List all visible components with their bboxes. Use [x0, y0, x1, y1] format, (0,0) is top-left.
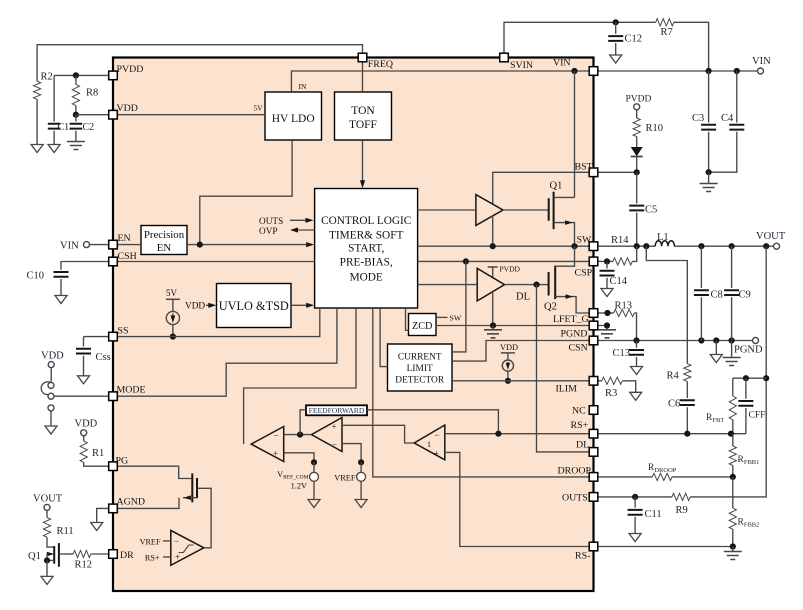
- wire amp B - input to VREF: [342, 444, 361, 463]
- svg-text:CONTROL LOGIC: CONTROL LOGIC: [321, 215, 411, 227]
- wire amp B output to amp A - input: [284, 434, 312, 436]
- svg-text:R4: R4: [667, 371, 680, 382]
- svg-text:RDROOP: RDROOP: [648, 463, 677, 474]
- node VIN/C4: [734, 68, 740, 74]
- capacitor C8: [700, 246, 702, 288]
- node VOUT/C9: [729, 243, 735, 249]
- capacitor C12: [615, 22, 617, 34]
- node CSN/R13/C13: [633, 337, 639, 343]
- pin RS-: [589, 542, 598, 551]
- node ILIM/source: [505, 378, 511, 384]
- pin RS+: [589, 429, 598, 438]
- pin PGND: [589, 321, 598, 330]
- wire PG internal to FET gate: [117, 466, 192, 478]
- resistor R_FBB2: [732, 477, 734, 508]
- wire SS pin to Css: [84, 336, 109, 338]
- op-amp upper gate driver: [476, 195, 503, 226]
- svg-text:VDD: VDD: [185, 302, 205, 312]
- node PGND stub: [604, 322, 610, 328]
- ground (arrow) VREF: [355, 500, 367, 508]
- svg-text:C5: C5: [645, 205, 657, 216]
- svg-text:C9: C9: [739, 290, 751, 301]
- wire switch to MODE pin: [54, 395, 108, 397]
- resistor R10: [636, 110, 638, 118]
- wire CSP external / resistor R14: [598, 260, 613, 262]
- node VIN/Q1 drain branch: [571, 68, 577, 74]
- wire DROOP external / resistor R_DROOP: [598, 476, 652, 478]
- pin ILIM: [589, 377, 598, 386]
- node EN/5V junction: [197, 242, 203, 248]
- svg-text:DL: DL: [516, 292, 530, 303]
- svg-text:C14: C14: [610, 276, 628, 287]
- svg-text:RFBB2: RFBB2: [738, 518, 760, 529]
- capacitor CFF: [745, 378, 747, 399]
- wire CSN internal: [452, 341, 589, 362]
- wire driver output to Q2 gate: [505, 284, 549, 286]
- node R8/VDD junction: [73, 112, 79, 118]
- svg-text:R14: R14: [611, 235, 629, 246]
- svg-text:RFBT: RFBT: [706, 413, 724, 424]
- svg-text:VDD: VDD: [41, 351, 64, 362]
- svg-text:DETECTOR: DETECTOR: [395, 376, 445, 386]
- resistor R11: [46, 510, 48, 517]
- svg-text:PVDD: PVDD: [626, 95, 652, 105]
- wire VIN internal (to HV LDO IN and Q1 drain): [291, 71, 588, 92]
- ground (earth) on PGND line: [723, 358, 741, 366]
- svg-text:OUTS: OUTS: [259, 217, 283, 227]
- diode D1: [631, 147, 643, 156]
- svg-text:IN: IN: [299, 82, 307, 91]
- svg-text:5V: 5V: [166, 288, 178, 298]
- pin VIN: [589, 67, 598, 76]
- wire VIN to EN pin: [90, 244, 109, 246]
- op-amp DR comparator (schmitt): [171, 530, 204, 565]
- wire unity amp - input / RS+ internal: [445, 433, 589, 435]
- capacitor Css: [83, 337, 85, 347]
- svg-text:DROOP: DROOP: [558, 465, 592, 476]
- svg-text:R11: R11: [57, 526, 74, 537]
- wire SW external: [598, 245, 655, 247]
- transistor PG FET (internal): [192, 473, 197, 502]
- wire Q2 source to LFET_G: [555, 297, 589, 313]
- svg-text:PVDD: PVDD: [117, 64, 144, 75]
- svg-text:1: 1: [427, 440, 431, 449]
- svg-text:C2: C2: [83, 122, 95, 133]
- wire VOUT feedback vertical: [690, 246, 766, 497]
- node VOUT/RFBT bar: [763, 375, 769, 381]
- wire DCR sense branch: [646, 246, 687, 364]
- svg-text:5V: 5V: [253, 104, 263, 113]
- svg-text:VREF: VREF: [334, 473, 356, 482]
- label SW at ZCD: [436, 316, 448, 318]
- pin CSP: [589, 257, 598, 266]
- ground (earth) driver: [484, 330, 502, 338]
- wire C6 to RS+ line: [686, 407, 688, 434]
- svg-text:BST: BST: [575, 162, 593, 173]
- node VOUT/feedback: [763, 243, 769, 249]
- node SS/source: [170, 334, 176, 340]
- node comp/feedforward: [297, 432, 303, 438]
- pin DR: [109, 550, 118, 559]
- wire PGND pin stub: [598, 326, 607, 330]
- svg-text:PGND: PGND: [734, 345, 763, 356]
- wire RFBT top bar: [733, 377, 766, 379]
- block FEEDFORWARD: [306, 405, 367, 415]
- wire UVLO to CONTROL LOGIC: [291, 304, 312, 306]
- wire Precision EN to CONTROL LOGIC: [187, 244, 312, 246]
- wire BST external: [598, 171, 637, 173]
- ground (earth) C2: [67, 142, 85, 150]
- svg-text:OUTS: OUTS: [562, 493, 588, 504]
- node DL/Q2 gate: [533, 282, 539, 288]
- svg-text:Css: Css: [96, 352, 111, 363]
- pin FREQ: [358, 53, 367, 62]
- op-amp lower gate driver: [477, 268, 504, 301]
- wire driver input from CONTROL LOGIC: [418, 209, 476, 211]
- pin SVIN: [500, 53, 509, 62]
- pin CSH: [109, 257, 118, 266]
- svg-text:ILIM: ILIM: [556, 384, 578, 395]
- capacitor C4: [736, 71, 738, 123]
- wire driver ground stub: [492, 293, 494, 326]
- wire C2 to ground: [75, 131, 77, 142]
- svg-text:−: −: [274, 430, 279, 440]
- wire AGND to ground: [97, 508, 109, 522]
- wire R2 to ground: [36, 99, 38, 144]
- svg-text:C10: C10: [27, 271, 45, 282]
- svg-text:R9: R9: [676, 505, 688, 516]
- node DROOP/divider: [730, 474, 736, 480]
- source VREF: [360, 462, 362, 472]
- svg-text:CSN: CSN: [569, 343, 588, 354]
- wire to earth ground: [708, 172, 710, 183]
- resistor R1: [83, 436, 85, 441]
- node RS+/feedforward: [495, 431, 501, 437]
- ground (earth) at PGND pin: [598, 330, 616, 338]
- resistor R9: [672, 493, 690, 500]
- svg-text:VIN: VIN: [752, 56, 771, 67]
- svg-text:Q2: Q2: [544, 302, 557, 313]
- terminal VOUT: [774, 243, 780, 249]
- wire TON/TOFF to CONTROL LOGIC: [362, 140, 364, 186]
- capacitor C3: [708, 71, 710, 123]
- resistor R2: [34, 81, 41, 99]
- svg-text:PVDD: PVDD: [500, 265, 521, 274]
- IC body U1: [113, 58, 594, 592]
- svg-text:VIN: VIN: [553, 58, 571, 69]
- pin AGND: [109, 504, 118, 513]
- svg-text:Q1: Q1: [550, 181, 563, 192]
- wire C1 to ground: [53, 131, 55, 145]
- wire amp A + input to VREF_COM: [284, 453, 314, 463]
- wire MODE internal: [117, 308, 337, 396]
- wire DL internal: [537, 285, 589, 452]
- op-amp unity gain (1): [414, 425, 445, 460]
- ground (earth) RS-: [724, 552, 742, 560]
- svg-text:−: −: [174, 536, 179, 546]
- wire driver input from CONTROL LOGIC: [418, 284, 478, 286]
- wire FEEDFORWARD left leg: [300, 410, 306, 435]
- svg-text:RFBB1: RFBB1: [738, 455, 760, 466]
- ground (arrow) switch: [45, 426, 57, 434]
- wire RS+ external: [598, 433, 746, 435]
- node RS+/divider: [728, 431, 734, 437]
- svg-text:VOUT: VOUT: [33, 494, 63, 505]
- svg-text:C6: C6: [668, 399, 680, 410]
- node CSP/C14: [604, 258, 610, 264]
- pin VDD: [109, 110, 118, 119]
- ground (arrow) C12: [610, 55, 622, 63]
- svg-text:CURRENT: CURRENT: [398, 353, 442, 363]
- ground (arrow) R3: [630, 392, 642, 400]
- source V_REF_COM 1.2V: [313, 462, 315, 472]
- node SW/sense: [643, 243, 649, 249]
- ground (arrow) on PGND line: [710, 355, 722, 363]
- block Precision EN: [141, 226, 187, 255]
- svg-text:R10: R10: [646, 123, 664, 134]
- pin DL: [589, 448, 598, 457]
- svg-text:FREQ: FREQ: [368, 59, 393, 70]
- svg-text:PGND: PGND: [561, 329, 588, 340]
- svg-text:EN: EN: [157, 242, 172, 254]
- svg-text:UVLO &TSD: UVLO &TSD: [219, 299, 289, 313]
- svg-text:+: +: [434, 448, 439, 458]
- node LFET_G: [604, 310, 610, 316]
- wire ZCD to CONTROL LOGIC: [406, 308, 409, 330]
- wire to earth: [492, 326, 494, 330]
- node CFF top: [743, 375, 749, 381]
- svg-text:START,: START,: [348, 242, 384, 254]
- ground (arrow) VREF_COM: [308, 500, 320, 508]
- transistor Q1 (external FET): [54, 543, 59, 567]
- svg-text:Q1: Q1: [28, 551, 41, 562]
- block HV LDO: [265, 92, 322, 140]
- wire gnd stub: [715, 341, 717, 355]
- block TON/TOFF: [335, 92, 392, 140]
- ground (earth) C3/C4: [700, 184, 718, 192]
- wire Q1 drain: [554, 196, 575, 198]
- svg-text:VDD: VDD: [75, 419, 98, 430]
- wire FEEDFORWARD right to RS+: [367, 410, 498, 434]
- node PVDD/R8 junction: [73, 72, 79, 78]
- wire CSH internal: [117, 261, 314, 263]
- wire CSH to C10: [61, 262, 109, 270]
- node SW/C5: [634, 243, 640, 249]
- wire VDD net: [76, 114, 109, 116]
- pin BST: [589, 168, 598, 177]
- svg-text:R8: R8: [86, 88, 98, 99]
- wire VIN line (external): [598, 70, 757, 72]
- wire ILIM internal: [452, 380, 589, 382]
- resistor R12: [59, 553, 73, 555]
- block CONTROL LOGIC: [315, 189, 418, 309]
- svg-text:MODE: MODE: [117, 385, 146, 396]
- svg-text:C1: C1: [58, 122, 70, 133]
- block ZCD: [409, 314, 437, 336]
- node OUTS/C11: [632, 494, 638, 500]
- node RS-/divider ground: [730, 543, 736, 549]
- terminal PGND: [753, 338, 759, 344]
- svg-text:LFET_G: LFET_G: [553, 314, 589, 325]
- wire BST internal: [493, 172, 589, 204]
- svg-text:NC: NC: [572, 406, 586, 417]
- wire CSN/PGND external line: [598, 340, 752, 342]
- pin SW: [589, 242, 598, 251]
- ground (arrow) AGND: [91, 523, 103, 531]
- terminal VIN: [758, 68, 764, 74]
- svg-text:C13: C13: [613, 348, 631, 359]
- ground (arrow) R2: [31, 145, 43, 153]
- node C3/C4 ground junction: [706, 169, 712, 175]
- ground (arrow) Q1 source: [41, 576, 53, 584]
- svg-text:−: −: [435, 430, 440, 440]
- svg-text:Precision: Precision: [144, 229, 185, 241]
- wire CSP to CURRENT LIMIT DETECTOR: [452, 261, 466, 352]
- capacitor C11: [634, 497, 636, 508]
- svg-text:FEEDFORWARD: FEEDFORWARD: [309, 406, 365, 415]
- svg-text:RS-: RS-: [575, 551, 590, 562]
- wire RS- external: [598, 546, 733, 548]
- node VREF: [358, 459, 364, 465]
- capacitor C2: [75, 115, 77, 122]
- wire Q1 source: [47, 554, 54, 560]
- svg-text:C8: C8: [711, 290, 723, 301]
- svg-text:SS: SS: [118, 325, 129, 336]
- svg-text:VDD: VDD: [117, 103, 138, 114]
- resistor R7: [656, 19, 674, 26]
- capacitor C13: [636, 341, 638, 348]
- node C12 top: [613, 19, 619, 25]
- svg-text:R2: R2: [41, 72, 53, 83]
- wire FREQ to TON/TOFF: [362, 62, 364, 92]
- svg-text:RS+: RS+: [571, 420, 589, 431]
- switch S1 (MODE select): [50, 368, 52, 383]
- pin EN: [109, 240, 118, 249]
- svg-text:TOFF: TOFF: [349, 119, 377, 131]
- wire Q2 drain to SW: [555, 246, 574, 266]
- svg-text:C11: C11: [645, 509, 662, 520]
- svg-text:RS+: RS+: [145, 554, 160, 563]
- wire R1 to PG pin: [84, 462, 109, 466]
- ground (arrow) C10: [55, 296, 67, 304]
- ground (arrow) Css: [78, 376, 90, 384]
- node VOUT/C8: [698, 243, 704, 249]
- pin NC: [589, 406, 598, 415]
- wire diode to BST: [636, 157, 638, 173]
- pin PG: [109, 462, 118, 471]
- svg-text:+: +: [273, 449, 278, 459]
- pin PVDD: [109, 71, 118, 80]
- svg-text:HV LDO: HV LDO: [272, 113, 315, 125]
- wire VOUT line: [674, 245, 773, 247]
- node RS+/R4C6: [684, 431, 690, 437]
- node Q1 source: [44, 557, 50, 563]
- svg-text:PRE-BIAS,: PRE-BIAS,: [340, 257, 393, 269]
- capacitor C6: [680, 400, 695, 405]
- svg-text:R3: R3: [605, 388, 617, 399]
- wire SVIN net: [504, 22, 656, 53]
- wire ILIM external / resistor R3: [598, 380, 602, 382]
- wire C4 to junction: [709, 132, 737, 172]
- wire R12 to DR pin: [91, 553, 109, 555]
- wire LFET_G external / resistor R13: [598, 312, 613, 314]
- resistor R4: [684, 364, 691, 382]
- block CURRENT LIMIT DETECTOR: [388, 344, 453, 391]
- wire PGND internal rail: [436, 325, 589, 327]
- svg-text:DL: DL: [576, 440, 589, 451]
- svg-text:CSH: CSH: [118, 251, 137, 262]
- wire Q1 source to SW: [554, 223, 575, 247]
- wire VDD to HV LDO (5V): [117, 114, 265, 116]
- svg-text:CFF: CFF: [749, 411, 766, 421]
- svg-text:ZCD: ZCD: [412, 321, 432, 332]
- pin CSN: [589, 336, 598, 345]
- wire FREQ net (top): [37, 45, 362, 81]
- svg-text:C3: C3: [692, 113, 704, 124]
- node SW/driver: [490, 243, 496, 249]
- pin SS: [109, 332, 118, 341]
- wire CONTROL LOGIC to comp node: [244, 308, 356, 444]
- wire PG FET drain to comparator output: [197, 488, 211, 548]
- svg-text:AGND: AGND: [117, 497, 146, 508]
- pin LFET_G: [589, 309, 598, 318]
- wire driver output to Q1 gate: [503, 209, 549, 211]
- Q1 body arrow: [47, 553, 49, 555]
- wire CONTROL LOGIC to CURRENT LIMIT DETECTOR: [380, 308, 387, 367]
- resistor R_FBT: [732, 378, 734, 396]
- resistor R8: [75, 75, 77, 84]
- capacitor C5: [636, 172, 638, 203]
- wire amp B + input from unity amp: [342, 425, 414, 443]
- svg-text:TIMER& SOFT: TIMER& SOFT: [329, 230, 403, 242]
- node PGND/driver gnd: [490, 322, 496, 328]
- wire C12 to ground: [615, 43, 617, 55]
- wire switch to ground: [50, 411, 52, 426]
- capacitor C9: [731, 246, 733, 288]
- svg-text:1.2V: 1.2V: [291, 482, 307, 491]
- op-amp error amp A (left): [251, 427, 284, 462]
- pin DROOP: [589, 473, 598, 482]
- wire EN pin to Precision EN: [117, 244, 141, 246]
- svg-text:DR: DR: [120, 550, 134, 561]
- svg-text:SVIN: SVIN: [510, 60, 533, 71]
- ground (arrow) C13: [631, 367, 643, 375]
- svg-text:SW: SW: [577, 235, 592, 246]
- node VREF_COM: [311, 459, 317, 465]
- capacitor C1: [48, 124, 61, 129]
- svg-text:VREF: VREF: [140, 537, 161, 546]
- capacitor C10: [54, 272, 69, 277]
- svg-text:TON: TON: [351, 105, 375, 117]
- wire CONTROL LOGIC to DROOP: [373, 308, 589, 477]
- svg-text:SW: SW: [450, 314, 462, 323]
- ground (arrow) C14: [601, 289, 613, 297]
- wire CSP internal: [418, 260, 589, 262]
- node line/C9 bottom: [729, 337, 735, 343]
- svg-text:−: −: [332, 439, 337, 449]
- node line/C8 bottom: [698, 337, 704, 343]
- block UVLO & TSD: [217, 284, 292, 328]
- node CSP/current limit: [463, 258, 469, 264]
- wire C9 gnd stub: [731, 341, 733, 358]
- ground (arrow) C1: [48, 145, 60, 153]
- svg-text:PG: PG: [116, 455, 129, 466]
- svg-text:VIN: VIN: [60, 241, 79, 252]
- svg-text:VOUT: VOUT: [756, 231, 786, 242]
- svg-text:VDD: VDD: [500, 343, 518, 352]
- wire unity amp + input to RS-: [445, 452, 589, 546]
- node VIN/C3: [706, 68, 712, 74]
